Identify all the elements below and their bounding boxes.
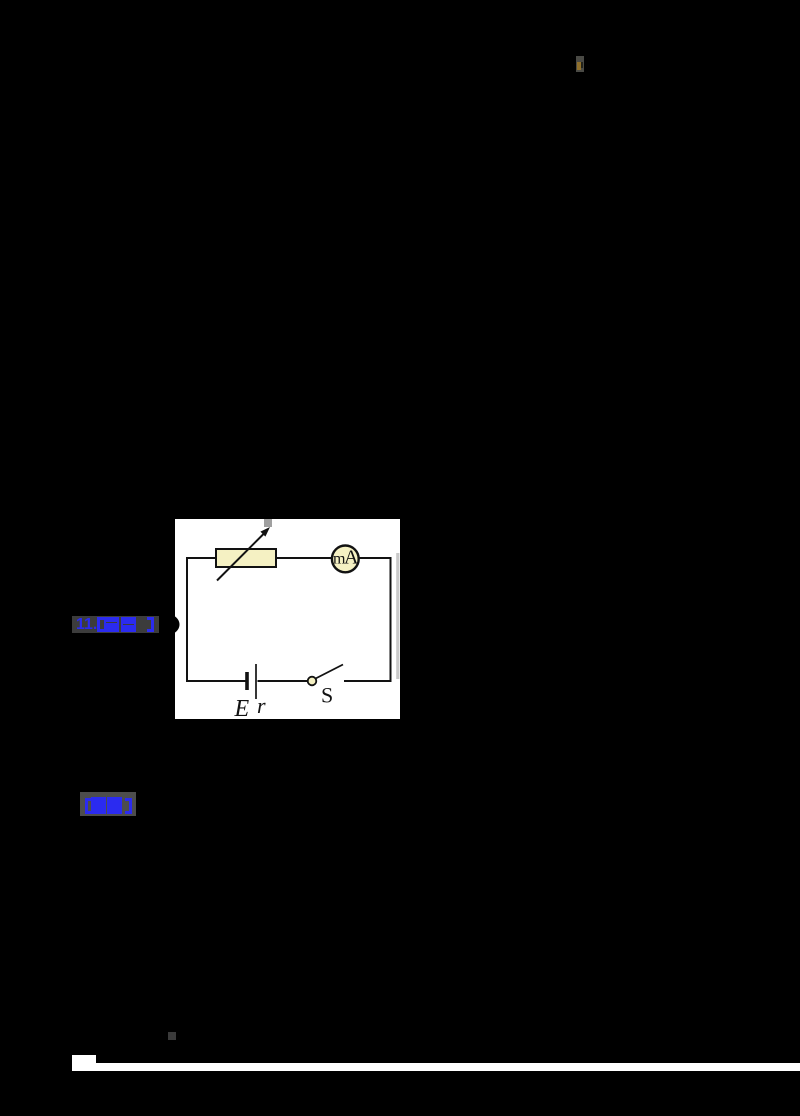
wire left [186,557,188,682]
svg-text:S: S [321,683,333,708]
fake CJK bracket right (answer) [129,798,132,814]
answer highlight band [80,792,136,816]
milliammeter mA [332,546,359,573]
wire right [390,557,392,682]
closing paren of answer blank [170,615,182,634]
bottom white bar [72,1063,800,1071]
slider artifact square [264,519,272,527]
rheostat arrow head [260,527,270,537]
circuit schematic panel [175,519,400,719]
small gray artifact bottom-left [168,1032,176,1040]
svg-text:E: E [234,696,250,719]
fake CJK bracket left [97,617,100,632]
rheostat arrow shaft [217,533,265,581]
fake CJK char A1 [91,797,106,814]
switch lever [316,665,343,679]
fake CJK char 2 [121,617,136,632]
wire battery to switch [258,680,309,682]
fake CJK char A2 [107,797,122,814]
fake CJK bracket right [151,617,154,632]
svg-text:r: r [257,693,266,718]
question number highlight band [72,616,159,633]
text cursor artifact top-right [576,56,584,72]
wire switch to right [344,680,392,682]
question label "11." [76,616,100,633]
bottom white bar notch [72,1055,96,1071]
battery positive plate (long thin) [255,664,257,699]
battery negative plate (short thick) [245,672,249,690]
fake CJK bracket left (answer) [85,798,88,814]
resistor R (rheostat body) [216,549,276,567]
scrollbar artifact [396,553,399,679]
wire top [187,557,391,559]
svg-text:mA: mA [333,547,359,569]
wire bottom-left to battery [186,680,246,682]
fake CJK char 1 [104,617,119,632]
switch S pivot [308,677,317,686]
